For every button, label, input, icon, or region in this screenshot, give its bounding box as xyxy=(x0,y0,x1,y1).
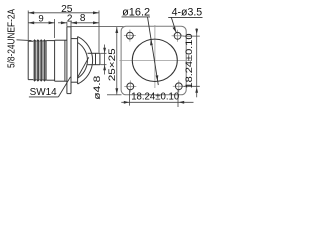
svg-text:9: 9 xyxy=(38,13,43,24)
svg-text:4-ø3.5: 4-ø3.5 xyxy=(172,6,203,18)
svg-text:25×25: 25×25 xyxy=(107,48,118,81)
svg-text:2: 2 xyxy=(67,13,73,24)
svg-text:ø16.2: ø16.2 xyxy=(122,6,150,18)
svg-text:18.24±0.10: 18.24±0.10 xyxy=(131,91,180,102)
svg-text:8: 8 xyxy=(80,13,86,24)
svg-text:SW14: SW14 xyxy=(30,87,57,98)
svg-text:5/8-24UNEF-2A: 5/8-24UNEF-2A xyxy=(7,9,18,68)
svg-text:ø4.8: ø4.8 xyxy=(92,76,103,100)
svg-text:18.24±0.10: 18.24±0.10 xyxy=(184,34,194,89)
